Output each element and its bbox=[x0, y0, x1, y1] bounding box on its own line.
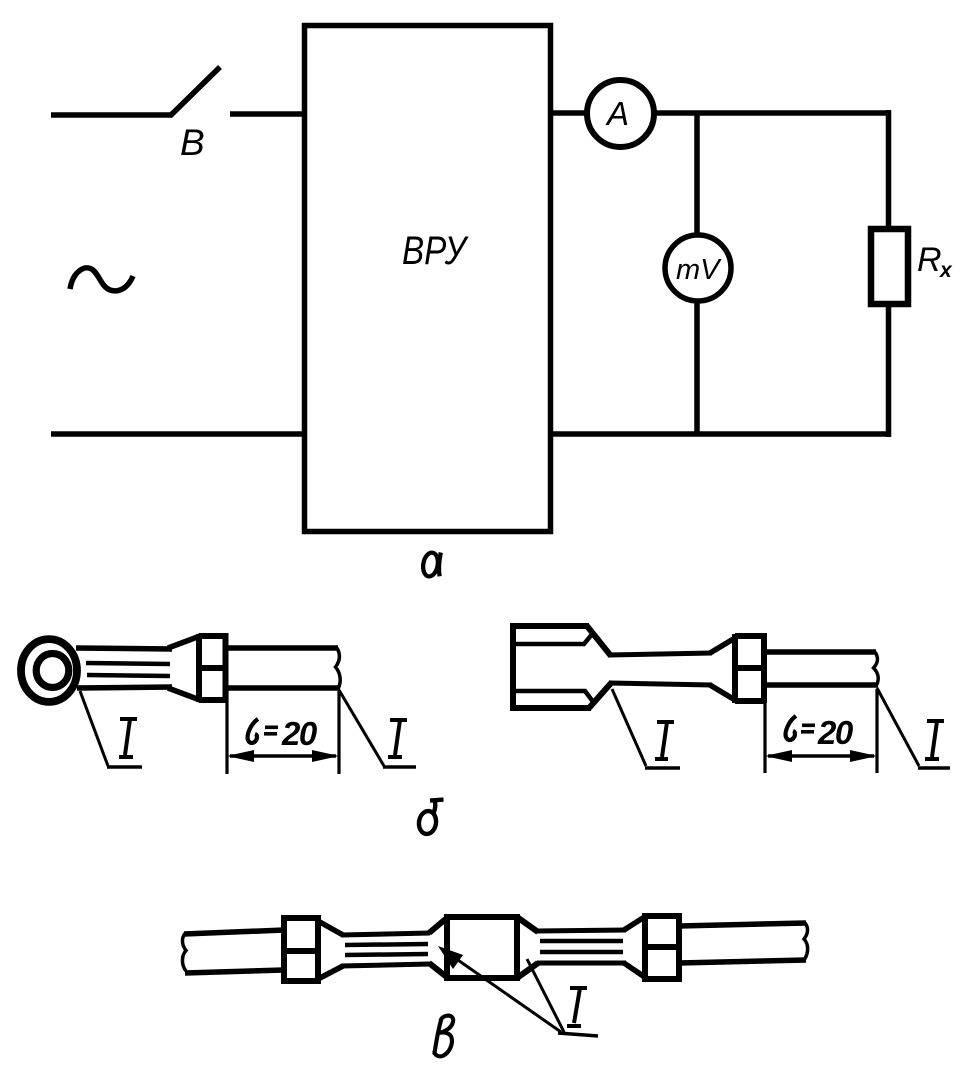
label I (right b) bbox=[925, 721, 944, 759]
svg-text:R: R bbox=[917, 241, 942, 279]
svg-text:ВРУ: ВРУ bbox=[402, 229, 469, 273]
label a (caption) bbox=[421, 551, 440, 577]
AC source symbol bbox=[70, 268, 133, 291]
svg-text:mV: mV bbox=[676, 254, 722, 286]
lug shank bottom edge bbox=[77, 687, 172, 688]
label v (caption) bbox=[434, 1016, 453, 1057]
wire right vertical top bbox=[886, 110, 892, 228]
wire bottom-left bbox=[51, 431, 305, 437]
cable left break bbox=[182, 934, 186, 972]
extension line left (right b) bbox=[763, 689, 766, 773]
ring lug outer circle bbox=[21, 639, 77, 702]
svg-text:20: 20 bbox=[817, 714, 854, 751]
wire top-left bbox=[51, 112, 172, 118]
dimension text l=20 (right b) bbox=[786, 716, 797, 740]
cable right (v) top bbox=[679, 923, 806, 926]
leader shelf (mid left b) bbox=[383, 765, 416, 768]
wire bottom-right bbox=[551, 431, 891, 437]
spade inner top line bbox=[516, 633, 593, 644]
cable top line (left b) bbox=[226, 645, 338, 651]
millivoltmeter mV circle bbox=[665, 235, 731, 301]
leader from ring bbox=[80, 691, 108, 766]
splice barrel (v) bbox=[429, 914, 538, 981]
label b (caption) bbox=[417, 800, 443, 835]
wire ammeter to corner bbox=[654, 110, 891, 116]
svg-text:20: 20 bbox=[281, 715, 318, 752]
leader shelf (far right b) bbox=[918, 766, 950, 769]
leader from cable end (left b) bbox=[339, 690, 384, 766]
block VRU box bbox=[305, 26, 551, 532]
leader 1 with arrow (v) bbox=[445, 951, 561, 1032]
lug shank top edge bbox=[76, 648, 172, 649]
leader from spade bbox=[612, 689, 646, 766]
svg-text:x: x bbox=[939, 259, 953, 282]
wire right vertical bottom bbox=[886, 304, 892, 437]
barrel (right b) bbox=[735, 633, 764, 703]
ammeter A circle bbox=[587, 80, 654, 147]
neck 1 (v) bbox=[341, 933, 430, 935]
neck top (right b) bbox=[608, 653, 712, 655]
cone 1 (v) bbox=[318, 921, 343, 935]
ferrule 2 (v) bbox=[645, 913, 679, 982]
dimension line with arrows bbox=[230, 754, 336, 757]
label I (mid b) bbox=[655, 722, 674, 759]
cable break (left b) bbox=[336, 648, 341, 688]
cable top line (right b) bbox=[764, 649, 876, 655]
lug shank mid line 1 bbox=[86, 663, 170, 664]
wire box to ammeter bbox=[553, 110, 587, 116]
wire to box bbox=[230, 111, 305, 117]
cable left (v) bottom bbox=[185, 970, 284, 973]
leader shelf (v) bbox=[558, 1033, 598, 1036]
extension line right bbox=[337, 691, 340, 774]
leader shelf bbox=[107, 765, 142, 768]
spade inner bottom line bbox=[516, 691, 594, 703]
cone 2 (v) bbox=[624, 916, 646, 930]
svg-text:В: В bbox=[180, 122, 205, 163]
switch B blade bbox=[170, 67, 220, 116]
leader 2 (v) bbox=[527, 959, 564, 1032]
cable right break bbox=[804, 923, 808, 960]
cable bottom line (left b) bbox=[226, 685, 340, 691]
dimension text l=20 bbox=[248, 719, 259, 743]
cable right (v) bottom bbox=[679, 960, 806, 963]
wire mV to bottom bbox=[694, 301, 700, 434]
lug cone top bbox=[168, 636, 200, 648]
lug barrel bbox=[199, 633, 226, 703]
ferrule 1 (v) bbox=[284, 915, 318, 984]
svg-text:A: A bbox=[605, 95, 629, 132]
wire branch to mV bbox=[694, 113, 700, 235]
ring lug inner circle bbox=[36, 654, 69, 688]
leader from cable end (right b) bbox=[877, 688, 919, 766]
cable left (v) top bbox=[184, 930, 284, 934]
cone (right b) bbox=[710, 638, 735, 653]
leader shelf (right b) bbox=[645, 766, 680, 769]
label I (mid left b) bbox=[388, 720, 407, 757]
lug cone bottom bbox=[168, 688, 200, 700]
spade terminal body bbox=[513, 623, 612, 711]
cable bottom line (right b) bbox=[764, 682, 878, 688]
neck bottom (right b) bbox=[610, 683, 712, 685]
neck 2 (v) bbox=[537, 930, 626, 931]
extension line left bbox=[225, 691, 228, 774]
cable break (right b) bbox=[874, 652, 879, 685]
resistor Rx bbox=[871, 229, 908, 304]
label I (left) bbox=[119, 719, 137, 757]
label I (v) bbox=[567, 988, 587, 1026]
lug shank mid line 2 bbox=[87, 675, 170, 676]
dimension line with arrows (right b) bbox=[768, 754, 874, 757]
extension line right (right b) bbox=[875, 689, 878, 773]
